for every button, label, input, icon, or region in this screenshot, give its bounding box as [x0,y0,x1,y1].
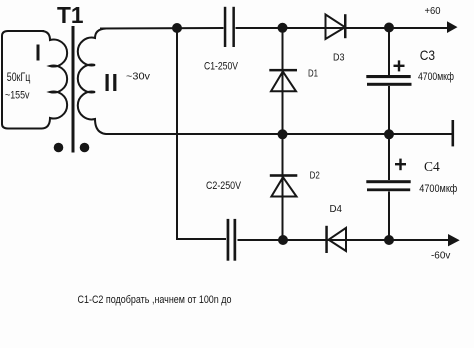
svg-text:50кГц: 50кГц [7,72,31,84]
svg-text:С1-С2 подобрать ,начнем от 10: С1-С2 подобрать ,начнем от 100n до [78,294,232,306]
svg-text:~155v: ~155v [5,89,30,101]
svg-text:C1-250V: C1-250V [204,61,239,73]
svg-text:D1: D1 [308,67,318,79]
svg-text:D2: D2 [310,170,320,182]
svg-text:4700мкф: 4700мкф [418,71,454,83]
svg-text:D3: D3 [333,52,345,64]
svg-text:4700мкф: 4700мкф [419,183,457,195]
svg-text:~30v: ~30v [126,70,151,82]
svg-text:C4: C4 [424,160,440,175]
svg-text:+60: +60 [425,6,441,17]
svg-text:-60v: -60v [431,251,450,262]
svg-text:C3: C3 [420,47,435,63]
svg-text:C2-250V: C2-250V [206,180,242,192]
svg-text:D4: D4 [330,203,343,215]
svg-text:T1: T1 [57,2,84,28]
